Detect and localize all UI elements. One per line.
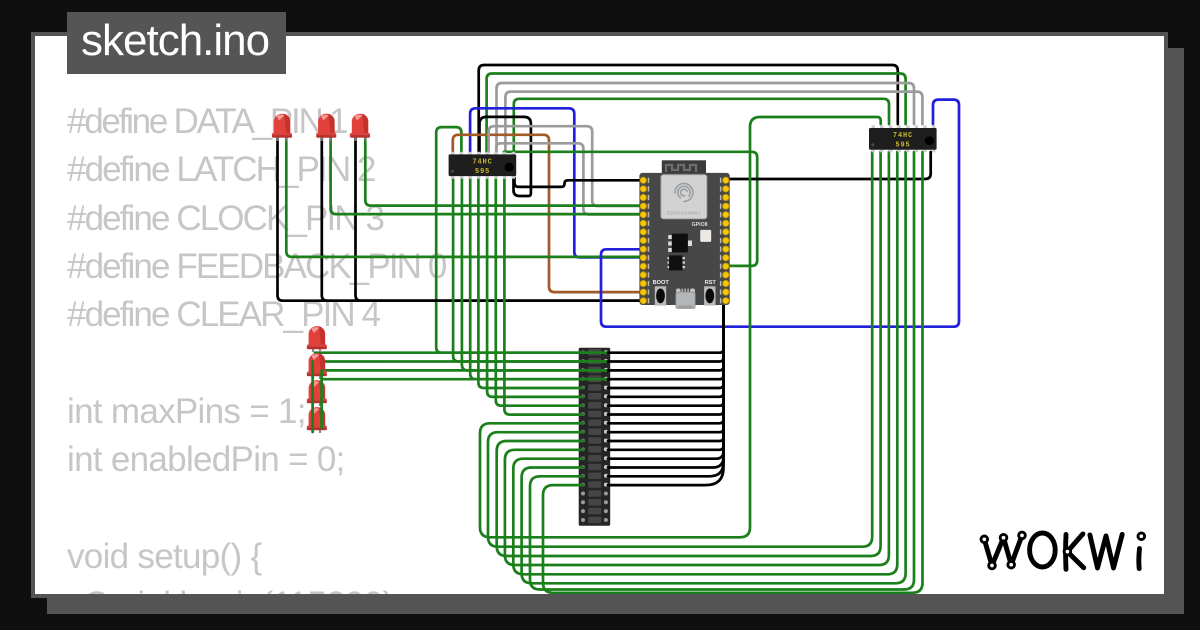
svg-text:BOOT: BOOT <box>653 280 670 286</box>
svg-text:GPIO8: GPIO8 <box>692 222 708 228</box>
svg-text:ESP32-C3-MINI-1: ESP32-C3-MINI-1 <box>667 211 701 216</box>
svg-text:74HC: 74HC <box>473 159 493 167</box>
svg-text:74HC: 74HC <box>893 132 913 140</box>
svg-text:595: 595 <box>475 168 490 176</box>
svg-text:595: 595 <box>895 142 910 150</box>
svg-text:RST: RST <box>705 280 717 286</box>
